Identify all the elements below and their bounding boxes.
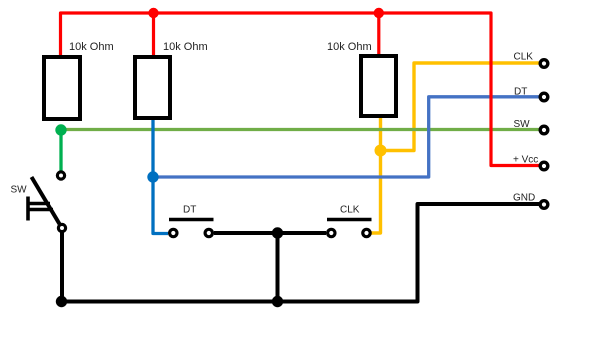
svg-text:DT: DT	[183, 205, 196, 216]
svg-text:CLK: CLK	[340, 205, 360, 216]
svg-text:+ Vcc: + Vcc	[513, 155, 538, 166]
svg-text:10k Ohm: 10k Ohm	[327, 41, 372, 53]
svg-text:GND: GND	[513, 193, 535, 204]
svg-text:CLK: CLK	[514, 52, 534, 63]
svg-text:DT: DT	[514, 87, 527, 98]
svg-text:SW: SW	[11, 185, 28, 196]
svg-text:10k Ohm: 10k Ohm	[69, 41, 114, 53]
svg-text:10k Ohm: 10k Ohm	[163, 41, 208, 53]
svg-text:SW: SW	[514, 119, 531, 130]
